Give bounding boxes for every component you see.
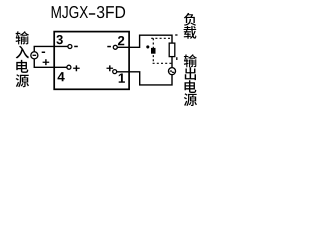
wire input bottom: source to terminal 4	[34, 59, 67, 67]
input DC power source	[31, 52, 38, 59]
terminal 4 circle	[67, 65, 71, 69]
label output-power char yuan	[184, 93, 197, 106]
terminal 4 plus mark	[73, 65, 80, 71]
wire output top: terminal 2 to load rail	[117, 35, 172, 47]
output AC power source	[168, 68, 175, 75]
terminal 2 minus mark	[107, 46, 111, 48]
terminal 2 pin number	[118, 36, 124, 45]
part number label MJGX-3FD	[52, 6, 125, 18]
terminal 2 circle	[113, 45, 117, 49]
label output-power char chu	[185, 67, 196, 80]
input polarity minus label	[42, 52, 45, 54]
asterisk mark	[146, 45, 149, 48]
label output-power char shu	[184, 54, 197, 67]
SSR module body	[54, 32, 129, 90]
alternative load resistor in dashed branch	[151, 48, 155, 53]
label load char fu	[184, 13, 196, 26]
wire output bottom: terminal 1 to source rail	[117, 72, 172, 85]
load resistor	[169, 43, 175, 57]
wire input top: source to terminal 3	[34, 46, 68, 51]
label input-power char ru	[16, 46, 29, 59]
terminal 1 pin number	[119, 74, 125, 83]
terminal 1 circle	[113, 70, 117, 74]
label input-power char dian	[16, 60, 28, 73]
label input-power char yuan	[16, 74, 29, 87]
terminal 1 plus mark	[107, 65, 114, 71]
terminal 3 circle	[68, 45, 72, 49]
label input-power char shu	[16, 31, 29, 44]
terminal 3 minus mark	[74, 46, 78, 48]
wire load to output source	[171, 57, 173, 68]
label output-power char dian	[185, 80, 197, 93]
dashed alternative load branch box	[151, 35, 177, 63]
input polarity plus label	[43, 59, 50, 65]
terminal 4 pin number	[58, 72, 65, 81]
terminal 3 pin number	[56, 35, 62, 44]
label load char zai	[184, 26, 197, 39]
